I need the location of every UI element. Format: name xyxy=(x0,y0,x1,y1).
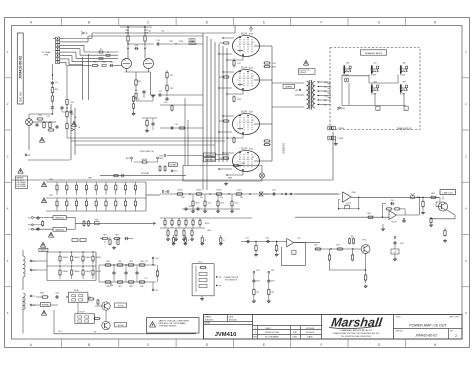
svg-text:R100: R100 xyxy=(178,189,184,191)
svg-text:P6: P6 xyxy=(28,225,31,227)
svg-text:J30: J30 xyxy=(346,63,350,65)
svg-text:DRAWN: DRAWN xyxy=(205,315,212,318)
svg-text:1N4007: 1N4007 xyxy=(85,257,91,259)
svg-text:C57: C57 xyxy=(245,237,248,239)
svg-text:C56: C56 xyxy=(345,204,348,206)
svg-text:RL2: RL2 xyxy=(199,261,204,263)
svg-text:A: A xyxy=(30,343,33,347)
svg-text:3: 3 xyxy=(252,76,254,78)
svg-text:TYPE AND RATING: TYPE AND RATING xyxy=(159,324,177,327)
svg-text:C120: C120 xyxy=(237,189,243,191)
svg-text:R72: R72 xyxy=(314,245,317,247)
svg-text:R11: R11 xyxy=(38,115,41,117)
svg-text:470K: 470K xyxy=(179,41,184,43)
svg-text:−: − xyxy=(346,200,348,202)
svg-text:47N: 47N xyxy=(256,281,260,283)
svg-text:R 220K: R 220K xyxy=(400,74,406,76)
svg-text:1: 1 xyxy=(7,50,9,54)
svg-text:C80: C80 xyxy=(207,230,210,232)
svg-text:R110: R110 xyxy=(205,223,209,225)
svg-text:C16: C16 xyxy=(156,40,159,42)
svg-text:H: H xyxy=(434,20,437,24)
svg-text:J6: J6 xyxy=(78,127,81,129)
svg-text:R 220K: R 220K xyxy=(371,74,377,76)
svg-text:RE1: RE1 xyxy=(103,234,106,236)
svg-text:P5: P5 xyxy=(28,217,31,219)
svg-text:J32: J32 xyxy=(402,82,406,84)
svg-text:P30: P30 xyxy=(341,108,346,110)
svg-text:C15: C15 xyxy=(174,124,177,126)
svg-text:© MARSHALL AMPLIFICATION PLC: © MARSHALL AMPLIFICATION PLC xyxy=(340,329,373,332)
svg-text:J28: J28 xyxy=(402,63,406,65)
svg-text:PL1: PL1 xyxy=(58,331,61,333)
svg-text:HEATER(4): HEATER(4) xyxy=(205,154,214,157)
svg-text:F3: F3 xyxy=(219,285,221,287)
svg-text:A: A xyxy=(86,32,88,35)
svg-text:RE2: RE2 xyxy=(115,234,118,236)
svg-text:C13: C13 xyxy=(110,61,113,63)
svg-text:1N4007: 1N4007 xyxy=(74,271,80,273)
svg-text:EL34: EL34 xyxy=(241,110,247,113)
svg-text:1: 1 xyxy=(236,80,238,82)
svg-text:5: 5 xyxy=(7,259,9,263)
svg-text:R16: R16 xyxy=(102,61,105,63)
svg-text:CON9: CON9 xyxy=(338,138,344,140)
svg-text:C68: C68 xyxy=(188,206,191,208)
svg-text:G: G xyxy=(378,343,381,347)
svg-text:HEATER(1): HEATER(1) xyxy=(55,228,64,231)
svg-text:R101: R101 xyxy=(197,189,203,191)
svg-text:CON10: CON10 xyxy=(338,128,346,130)
svg-text:C70: C70 xyxy=(144,261,147,263)
svg-text:07/10/08: 07/10/08 xyxy=(306,328,315,330)
svg-text:R22: R22 xyxy=(170,75,173,77)
svg-text:R2: R2 xyxy=(107,52,109,54)
svg-text:3: 3 xyxy=(252,157,254,159)
svg-text:4n/1.5K: 4n/1.5K xyxy=(142,159,148,161)
svg-text:D: D xyxy=(206,20,209,24)
svg-text:STBY SWITCH: STBY SWITCH xyxy=(140,151,154,153)
svg-text:R89: R89 xyxy=(140,286,143,288)
svg-text:PCB: PCB xyxy=(44,54,49,56)
svg-text:N.EILES: N.EILES xyxy=(205,319,213,321)
svg-text:C: C xyxy=(147,20,150,24)
svg-text:JVM410-63-02: JVM410-63-02 xyxy=(396,128,412,130)
svg-text:LINE OUT: LINE OUT xyxy=(443,192,454,194)
svg-text:-15: -15 xyxy=(155,290,159,292)
svg-text:R41: R41 xyxy=(49,195,52,197)
svg-text:R27: R27 xyxy=(137,99,140,101)
svg-text:R23: R23 xyxy=(170,88,173,90)
svg-text:SCREEN: SCREEN xyxy=(282,143,286,154)
svg-text:R1: R1 xyxy=(100,49,102,51)
svg-text:EL34: EL34 xyxy=(249,148,253,150)
svg-text:D: D xyxy=(206,343,209,347)
svg-text:R 220K: R 220K xyxy=(371,93,377,95)
svg-text:R24: R24 xyxy=(71,102,74,104)
svg-text:MA1: MA1 xyxy=(328,83,331,86)
svg-text:4: 4 xyxy=(465,207,467,211)
svg-text:ASSEM: ASSEM xyxy=(285,86,292,89)
svg-text:R87: R87 xyxy=(118,286,121,288)
svg-text:R73: R73 xyxy=(336,245,339,247)
svg-text:3: 3 xyxy=(465,154,467,158)
svg-text:RL1A: RL1A xyxy=(74,289,79,292)
svg-text:TR2: TR2 xyxy=(362,240,367,242)
svg-text:C9: C9 xyxy=(74,117,77,119)
svg-text:MODEL: MODEL xyxy=(205,323,211,325)
svg-text:EL34: EL34 xyxy=(241,66,247,69)
svg-text:F: F xyxy=(320,343,322,347)
svg-text:DATE: DATE xyxy=(307,336,313,339)
svg-text:DENBIGH ROAD, BLETCHLEY, MILTO: DENBIGH ROAD, BLETCHLEY, MILTON KEYNES, … xyxy=(333,332,380,335)
svg-text:MA4: MA4 xyxy=(328,96,331,99)
svg-text:SPEAKER JACKS: SPEAKER JACKS xyxy=(365,52,383,55)
svg-text:J31: J31 xyxy=(373,82,377,84)
svg-text:DRG No: DRG No xyxy=(396,331,403,333)
svg-text:R90: R90 xyxy=(241,163,244,165)
svg-text:PRODUCTION: PRODUCTION xyxy=(265,332,279,334)
svg-text:C17: C17 xyxy=(158,91,161,93)
svg-text:C10: C10 xyxy=(55,82,58,84)
svg-text:HT+: HT+ xyxy=(164,102,169,104)
svg-text:HEATER(1): HEATER(1) xyxy=(55,217,64,220)
svg-text:1: 1 xyxy=(236,46,238,48)
svg-text:EL34: EL34 xyxy=(249,33,253,35)
svg-text:R60: R60 xyxy=(272,67,275,69)
svg-text:C121: C121 xyxy=(207,203,211,205)
svg-text:1: 1 xyxy=(255,332,257,334)
svg-text:C20: C20 xyxy=(272,63,275,65)
svg-text:R66: R66 xyxy=(367,213,370,215)
svg-text:E: E xyxy=(263,343,266,347)
svg-text:3: 3 xyxy=(252,42,254,44)
svg-text:B: B xyxy=(88,20,91,24)
svg-text:UT/RELAY: UT/RELAY xyxy=(141,172,150,175)
svg-text:1N4007: 1N4007 xyxy=(62,271,68,273)
svg-text:F: F xyxy=(320,20,322,24)
svg-text:MA3: MA3 xyxy=(328,92,331,95)
svg-text:C58: C58 xyxy=(390,200,393,202)
svg-text:C31: C31 xyxy=(271,270,274,272)
svg-text:C64: C64 xyxy=(272,190,275,192)
svg-text:R28: R28 xyxy=(169,41,172,43)
svg-text:C122: C122 xyxy=(234,203,238,205)
svg-text:B: B xyxy=(88,343,91,347)
svg-text:0V: 0V xyxy=(94,331,97,333)
svg-text:1M: 1M xyxy=(271,292,274,294)
svg-text:R48: R48 xyxy=(238,99,241,101)
svg-text:R47: R47 xyxy=(238,63,241,65)
svg-text:N-E:249VAC: N-E:249VAC xyxy=(16,185,27,188)
svg-text:6: 6 xyxy=(7,311,9,315)
svg-text:R68: R68 xyxy=(431,193,434,195)
svg-text:EL34: EL34 xyxy=(249,67,253,69)
svg-text:R85: R85 xyxy=(140,261,143,263)
svg-text:C64: C64 xyxy=(55,293,58,295)
svg-text:A: A xyxy=(30,20,33,24)
svg-text:C62: C62 xyxy=(400,243,403,245)
svg-text:TEL: 01908 375411 FAX: 01908: TEL: 01908 375411 FAX: 01908 376118 xyxy=(341,335,371,338)
svg-text:ISS: ISS xyxy=(450,331,454,333)
svg-text:J27: J27 xyxy=(373,63,377,65)
svg-text:SP2: SP2 xyxy=(159,158,164,160)
svg-text:R25: R25 xyxy=(71,114,74,116)
svg-text:1: 1 xyxy=(236,161,238,163)
svg-text:RL1B: RL1B xyxy=(80,312,85,314)
svg-text:B1: B1 xyxy=(162,31,164,33)
svg-text:FOOTSWITCH: FOOTSWITCH xyxy=(225,280,238,282)
svg-text:TL072: TL072 xyxy=(391,221,396,223)
svg-text:EL34: EL34 xyxy=(241,32,247,35)
svg-text:R14: R14 xyxy=(55,89,58,91)
svg-text:SHT 2 OF 2: SHT 2 OF 2 xyxy=(449,317,459,319)
svg-text:C11: C11 xyxy=(46,116,49,118)
svg-text:MAINS: MAINS xyxy=(41,249,47,252)
svg-text:ECO NUMBER: ECO NUMBER xyxy=(265,337,279,339)
svg-text:R84: R84 xyxy=(40,293,43,295)
svg-text:R49: R49 xyxy=(95,220,98,222)
svg-text:R105: R105 xyxy=(220,203,224,205)
svg-text:3: 3 xyxy=(252,120,254,122)
svg-text:2: 2 xyxy=(465,102,467,106)
svg-text:BC546: BC546 xyxy=(118,325,124,327)
svg-text:R: R xyxy=(188,240,190,242)
svg-text:IC2: IC2 xyxy=(298,238,301,240)
svg-text:03/11/06: 03/11/06 xyxy=(306,332,315,334)
svg-text:2: 2 xyxy=(455,334,457,338)
svg-text:1: 1 xyxy=(236,124,238,126)
svg-text:P15: P15 xyxy=(174,171,179,173)
svg-text:22N: 22N xyxy=(240,197,244,199)
svg-text:4: 4 xyxy=(7,207,9,211)
svg-text:P3: P3 xyxy=(33,296,36,298)
svg-text:A1: A1 xyxy=(149,30,151,33)
svg-text:JVM410: JVM410 xyxy=(299,72,306,74)
svg-text:IC1: IC1 xyxy=(349,203,352,205)
svg-text:Marshall: Marshall xyxy=(330,316,383,330)
svg-text:E: E xyxy=(263,20,266,24)
svg-text:R81: R81 xyxy=(106,261,109,263)
svg-text:JVM410: JVM410 xyxy=(215,332,237,338)
svg-text:C14: C14 xyxy=(135,45,138,47)
svg-text:JVM410-60-02: JVM410-60-02 xyxy=(415,334,437,338)
svg-text:R104: R104 xyxy=(195,203,199,205)
svg-text:R15: R15 xyxy=(93,61,96,63)
svg-text:HEATER(4): HEATER(4) xyxy=(205,158,214,161)
svg-text:03/11/06: 03/11/06 xyxy=(229,319,238,321)
svg-text:R20: R20 xyxy=(137,81,140,83)
svg-text:H: H xyxy=(434,343,437,347)
svg-text:R83: R83 xyxy=(129,261,132,263)
svg-text:47K: 47K xyxy=(200,197,204,199)
svg-text:C30: C30 xyxy=(256,270,259,272)
svg-text:F2: F2 xyxy=(219,277,221,279)
svg-text:JVM410-60-02: JVM410-60-02 xyxy=(19,56,23,79)
svg-text:POWER AMP / DI OUT: POWER AMP / DI OUT xyxy=(409,323,447,327)
svg-text:SCREEN: SCREEN xyxy=(169,165,177,167)
svg-text:1N4007: 1N4007 xyxy=(62,257,68,259)
svg-text:1N4007: 1N4007 xyxy=(85,271,91,273)
svg-text:R88: R88 xyxy=(129,286,132,288)
svg-text:470K: 470K xyxy=(181,197,186,199)
svg-text:CHG. NO.:: CHG. NO.: xyxy=(21,91,23,102)
svg-text:5: 5 xyxy=(465,259,467,263)
svg-text:THERMAL: THERMAL xyxy=(42,304,50,307)
svg-text:a: a xyxy=(293,252,295,254)
svg-text:2: 2 xyxy=(7,102,9,106)
svg-text:1M: 1M xyxy=(256,292,259,294)
svg-text:BC546: BC546 xyxy=(118,306,124,308)
svg-text:C71: C71 xyxy=(144,278,147,280)
svg-text:NFB: NFB xyxy=(228,177,232,179)
svg-text:HT1: HT1 xyxy=(190,40,193,42)
svg-text:P8: P8 xyxy=(28,155,31,157)
svg-text:EL34: EL34 xyxy=(249,111,253,113)
svg-text:5V: 5V xyxy=(394,252,397,254)
svg-text:E.A.: E.A. xyxy=(293,331,297,334)
svg-text:1: 1 xyxy=(465,50,467,54)
svg-text:10K: 10K xyxy=(220,197,224,199)
svg-text:C59: C59 xyxy=(265,237,268,239)
svg-text:C: C xyxy=(147,343,150,347)
svg-text:1N4007: 1N4007 xyxy=(74,257,80,259)
svg-text:R86: R86 xyxy=(106,286,109,288)
svg-text:CHKD: CHKD xyxy=(293,337,299,339)
svg-text:HT2: HT2 xyxy=(190,43,193,45)
svg-text:TITLE: TITLE xyxy=(396,317,402,319)
svg-text:G: G xyxy=(378,20,381,24)
svg-text:EL34: EL34 xyxy=(241,147,247,150)
svg-text:20Δ-2: 20Δ-2 xyxy=(265,327,271,330)
svg-text:R: R xyxy=(176,240,178,242)
svg-text:NFB: NFB xyxy=(88,177,92,179)
svg-text:R82: R82 xyxy=(118,261,121,263)
svg-text:R 220K: R 220K xyxy=(400,93,406,95)
svg-text:SP1: SP1 xyxy=(126,158,131,160)
svg-text:R: R xyxy=(205,240,207,242)
svg-text:+15: +15 xyxy=(155,258,159,260)
svg-text:R103: R103 xyxy=(217,189,223,191)
svg-text:DATE: DATE xyxy=(229,315,234,318)
svg-text:MA2: MA2 xyxy=(328,87,331,90)
svg-text:HT: HT xyxy=(295,90,299,92)
svg-text:P7: P7 xyxy=(28,229,31,231)
svg-text:R: R xyxy=(223,240,225,242)
svg-text:P10: P10 xyxy=(159,155,164,157)
svg-text:6: 6 xyxy=(465,311,467,315)
svg-text:3: 3 xyxy=(7,154,9,158)
svg-text:47N: 47N xyxy=(271,281,275,283)
svg-text:220K: 220K xyxy=(351,192,356,194)
